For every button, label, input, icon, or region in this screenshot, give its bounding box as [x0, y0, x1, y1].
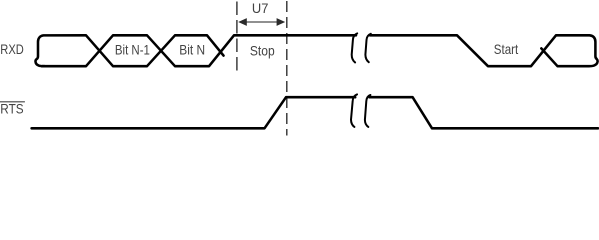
svg-text:Bit N-1: Bit N-1 [115, 43, 150, 58]
svg-text:Bit N: Bit N [179, 43, 205, 58]
svg-text:RTS: RTS [0, 102, 23, 117]
svg-text:U7: U7 [252, 1, 269, 16]
svg-text:Start: Start [494, 42, 519, 57]
svg-text:RXD: RXD [0, 42, 24, 57]
svg-text:Stop: Stop [250, 44, 275, 59]
